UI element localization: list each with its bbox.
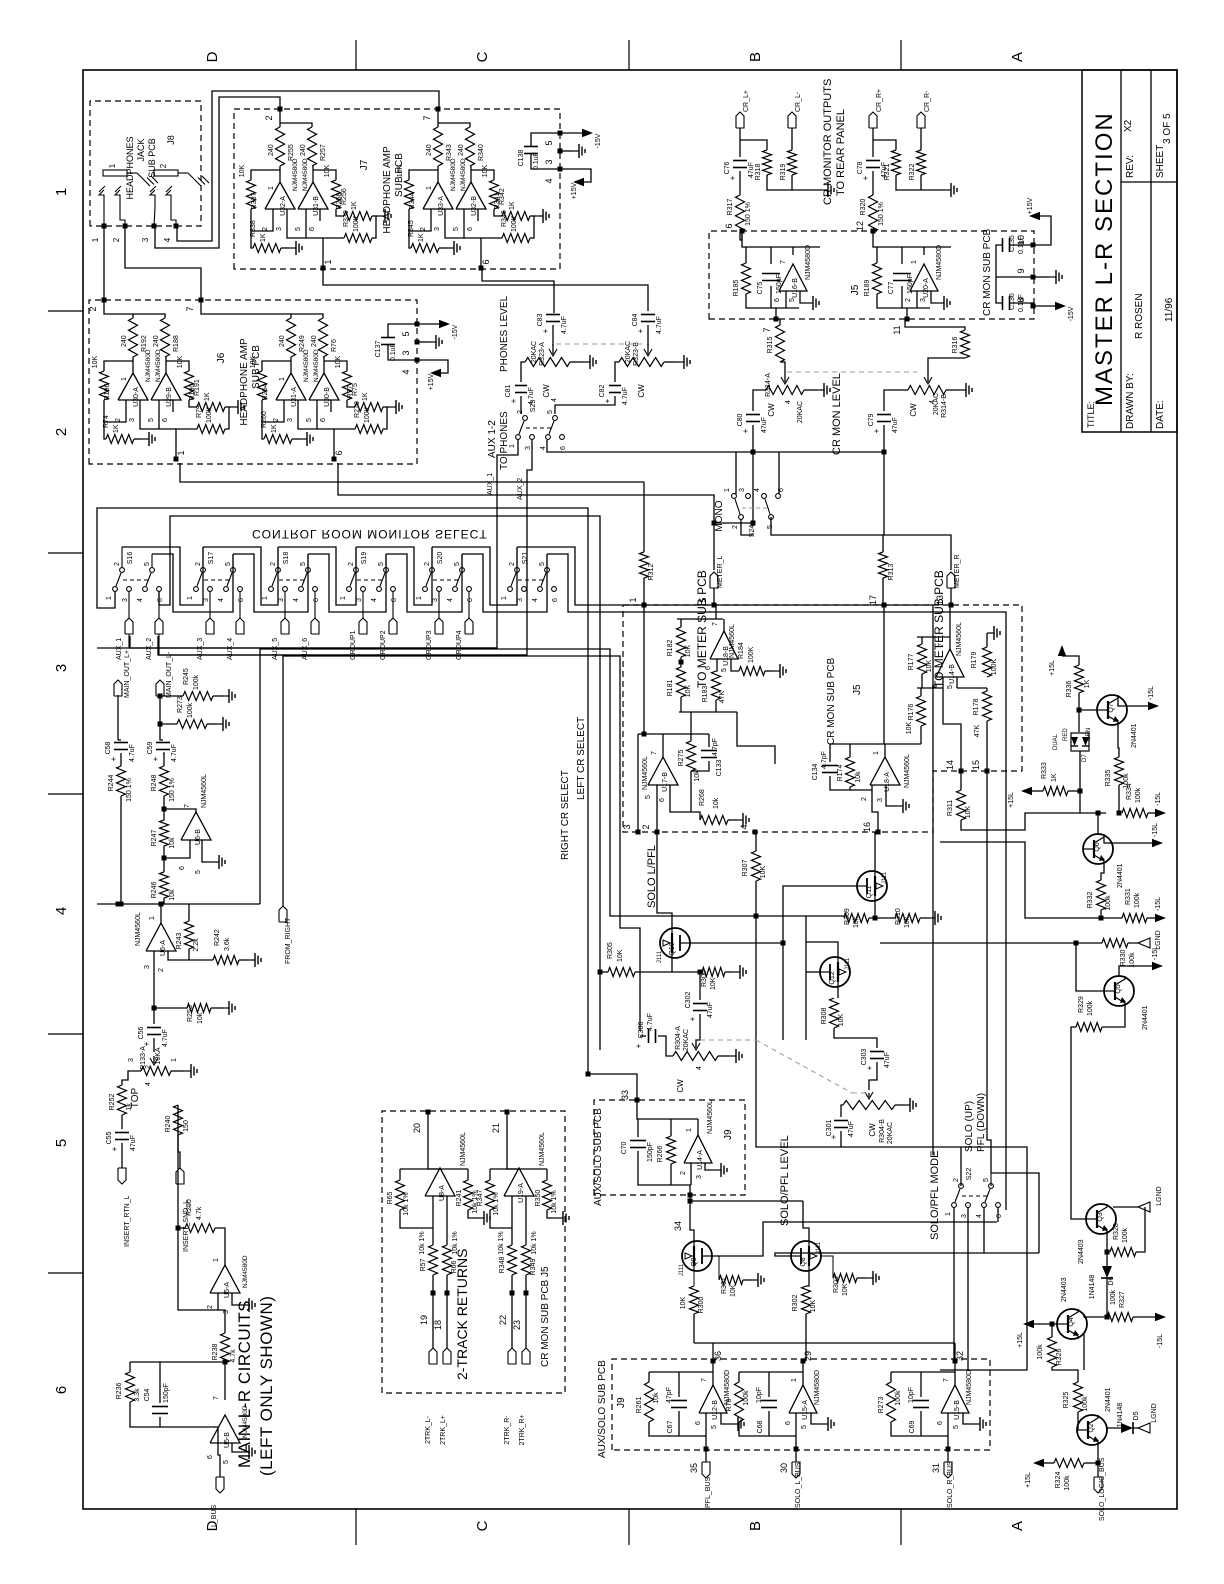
svg-text:6: 6 [334,450,344,455]
svg-text:10K: 10K [760,865,767,878]
resistor R192 240 [129,318,138,357]
ground [804,389,817,391]
svg-text:J111: J111 [816,1241,822,1254]
resistor R266 [670,1119,672,1136]
svg-text:1K: 1K [351,201,358,210]
svg-text:2: 2 [270,562,277,566]
ground [963,1413,973,1424]
svg-text:2TRK_L+: 2TRK_L+ [440,1415,447,1445]
wire [409,231,411,248]
svg-text:J111: J111 [657,950,663,963]
svg-text:6: 6 [238,598,245,602]
wire gate Q11 [783,886,857,1040]
svg-text:U8-A: U8-A [439,1185,446,1201]
svg-text:3: 3 [517,598,524,602]
power +15V [417,360,448,373]
CR MON SUB PCB J5 center box [623,605,1022,832]
svg-text:D5: D5 [1133,1411,1140,1420]
ground [765,670,773,672]
svg-text:100K: 100K [991,659,998,676]
resistor R346 100K [502,234,530,243]
op-amp U16-B [779,264,807,291]
op-amp U18-B NJM4560L [710,631,738,659]
svg-text:1: 1 [108,163,117,168]
svg-text:R305: R305 [607,942,614,959]
svg-text:R252: R252 [109,1094,116,1111]
svg-text:S17: S17 [208,552,215,565]
rail [97,903,260,905]
connector INSERT_RTN_L [121,1143,123,1168]
svg-text:C69: C69 [909,1420,916,1433]
svg-text:3: 3 [877,798,884,802]
ground [721,1413,731,1424]
svg-text:R323-B: R323-B [633,342,640,366]
junction pin 14 [959,769,964,774]
connector CR_L+ [736,112,744,128]
svg-text:1K: 1K [113,424,120,433]
svg-text:4.7uF: 4.7uF [647,1013,654,1031]
svg-text:S16: S16 [127,552,134,565]
svg-text:R184: R184 [738,642,745,659]
svg-text:PFL (DOWN): PFL (DOWN) [976,1093,987,1152]
svg-text:NJM4580D: NJM4580D [313,349,320,382]
svg-text:4: 4 [371,598,378,602]
svg-text:R255: R255 [288,144,295,161]
svg-text:1K: 1K [362,392,369,401]
svg-text:R189: R189 [864,280,871,297]
resistor R257 240 [308,127,317,166]
svg-text:30: 30 [779,1463,789,1473]
svg-text:6: 6 [53,1386,70,1394]
svg-text:3: 3 [696,1175,703,1179]
wire bus B [159,516,600,1050]
power -15L [1119,966,1152,976]
svg-text:S20: S20 [437,552,444,565]
svg-text:CW: CW [676,1079,685,1093]
wire [1052,1367,1078,1382]
wire [996,245,1002,303]
svg-text:+: + [151,756,160,761]
svg-text:C303: C303 [861,1049,868,1066]
svg-text:33: 33 [620,1090,630,1100]
svg-text:CR MON SUB PCB: CR MON SUB PCB [826,657,837,745]
svg-text:R320: R320 [860,199,867,216]
svg-text:1: 1 [873,751,880,755]
svg-text:HEADPHONE AMP: HEADPHONE AMP [239,338,250,426]
wire inv to pin 14 [943,688,961,771]
svg-text:-15V: -15V [452,324,459,339]
svg-text:+15V: +15V [571,182,578,199]
wire inputs [656,785,657,832]
svg-text:R334: R334 [1126,783,1133,800]
resistor R174 10k [849,744,851,757]
svg-text:150pF: 150pF [163,1383,170,1403]
wire [117,695,119,740]
svg-text:2TRK_R+: 2TRK_R+ [519,1415,526,1446]
power -15L Q7 [1118,695,1148,706]
connector AUX_5 [281,618,289,634]
svg-text:5: 5 [454,562,461,566]
resistor R320 150 1% [869,195,878,232]
resistor R240 150 [178,1135,180,1168]
wire [777,319,780,325]
wire [884,390,908,411]
junction node 2 [102,298,107,303]
svg-text:10k 1%: 10k 1% [531,1231,538,1254]
capacitor C303 47uF [834,1028,877,1048]
capacitor C76 47uF [733,167,747,169]
svg-text:U15-B: U15-B [954,1400,961,1420]
svg-text:R333: R333 [1041,762,1048,779]
svg-text:R311: R311 [947,800,954,816]
resistor R305 10K [608,968,635,977]
wire Q9 gate [712,1222,997,1256]
wire [917,687,943,689]
svg-text:100k: 100k [1105,895,1112,911]
resistor R78 100k [738,1372,740,1382]
svg-text:R66: R66 [451,1260,458,1273]
svg-text:R335: R335 [1105,770,1112,787]
ground [281,247,289,249]
svg-text:U18-A: U18-A [884,772,891,792]
svg-text:R342: R342 [499,188,506,205]
op-amp U19-A NJM4560L [504,1168,534,1196]
power -15V [560,132,582,134]
LGND open arrow [1133,1427,1150,1429]
svg-text:NJM4560L: NJM4560L [201,774,208,808]
svg-text:R331: R331 [1125,888,1132,905]
svg-text:9: 9 [1016,268,1026,273]
svg-text:3: 3 [432,598,439,602]
svg-text:J9: J9 [616,1397,627,1408]
svg-text:C77: C77 [888,281,895,294]
ground [211,1007,222,1009]
wire [740,140,767,150]
resistor R76 240 [319,318,328,357]
chassis ground [137,173,143,179]
svg-text:2: 2 [158,968,165,972]
wire pole chain [202,547,204,567]
svg-text:+15L: +15L [1049,660,1056,676]
resistor R342 1K [502,212,530,221]
svg-text:Q10: Q10 [669,942,676,955]
wire [432,1196,434,1245]
connector SOLO_L_BUS [795,1449,797,1462]
svg-text:C80: C80 [737,413,744,426]
svg-text:1: 1 [279,377,286,381]
wire [177,1105,179,1228]
svg-text:MONO: MONO [714,500,725,531]
resistor R315 [776,325,785,362]
wire pole chain [516,547,518,567]
svg-text:R236: R236 [116,1383,123,1400]
wire [437,166,439,182]
headphone jack 1 [103,170,127,176]
ground [213,695,222,697]
svg-text:2: 2 [348,562,355,566]
wire [873,231,951,247]
wire emitter Q5 [1102,1003,1125,1027]
ground [547,1210,556,1218]
svg-text:100K: 100K [364,406,371,423]
svg-text:100k: 100k [1135,787,1142,803]
svg-text:SHEET: SHEET [1155,145,1166,178]
junction pin 3 [415,340,420,345]
svg-text:5: 5 [539,562,546,566]
pin 3 [444,209,446,221]
connector wire CR_L- [791,128,793,150]
svg-text:R188: R188 [173,335,180,352]
wire [159,695,161,724]
svg-text:R256: R256 [341,188,348,205]
svg-text:47uF: 47uF [884,1052,891,1068]
svg-text:R182: R182 [667,640,674,657]
svg-text:NJM4580D: NJM4580D [302,158,309,191]
wire [657,832,672,928]
op-amp U6-B NJM4560L [181,812,211,840]
resistor R176 10K [920,688,922,696]
wire LGND rail [880,942,1102,944]
svg-text:C78: C78 [857,161,864,174]
connector GROUP4 [465,618,473,634]
connector wire CR_R- [920,128,922,150]
wire [104,400,126,422]
svg-text:U5-B: U5-B [224,1432,231,1448]
svg-text:6: 6 [774,298,781,302]
connector 2TRK_R+ [522,1348,530,1364]
resistor R316 [961,330,970,358]
svg-text:U30-A: U30-A [133,387,140,407]
wire [279,109,281,127]
svg-text:47uF: 47uF [892,417,899,433]
svg-text:6: 6 [659,798,666,802]
svg-text:2: 2 [88,306,98,311]
svg-text:+15V: +15V [428,373,435,390]
pin 3 [286,209,288,221]
svg-text:15: 15 [971,760,981,770]
svg-text:6: 6 [724,223,734,228]
svg-text:FROM_RIGHT: FROM_RIGHT [285,917,292,964]
svg-text:3: 3 [287,418,294,422]
resistor R347 10k 1% [489,1169,491,1180]
JFET Q9 J111 [682,1241,712,1271]
junction node 1 [321,266,326,271]
svg-text:240: 240 [426,144,433,156]
svg-text:R242: R242 [214,929,221,946]
gang dashed line R323 [556,343,645,345]
svg-text:U31-B: U31-B [313,196,320,216]
resistor R337 10K feedback A [247,180,256,209]
connector GROUP1 [359,618,367,634]
resistor R308 10K [837,987,839,998]
svg-text:R329: R329 [1078,996,1085,1013]
svg-text:8: 8 [1016,297,1026,302]
svg-text:23: 23 [512,1320,522,1330]
svg-text:NJM4580D: NJM4580D [242,1405,249,1438]
resistor R191 1K [197,403,225,412]
svg-text:CR MON SUB PCB J5: CR MON SUB PCB J5 [540,1266,551,1367]
ground [664,361,677,363]
svg-text:C75: C75 [757,281,764,294]
resistor R255 240 [276,127,285,166]
resistor R77 10K feedback B [343,371,352,400]
ground [570,361,583,363]
svg-text:R318: R318 [755,164,762,181]
pin 5 [305,209,307,221]
op-amp U30-B [309,373,339,400]
zone tick [900,40,902,70]
svg-text:U6-B: U6-B [195,829,202,845]
resistor R275 10k [690,712,692,741]
svg-text:1: 1 [791,1378,798,1382]
svg-text:U6-A: U6-A [160,940,167,956]
wire [905,319,965,330]
pin 2 [430,209,432,221]
wire [122,1071,141,1085]
ground [705,1163,714,1170]
capacitor C301 47uF [841,1105,843,1117]
svg-text:47K: 47K [719,690,726,703]
ground [232,1443,242,1452]
wire [262,422,264,439]
svg-text:MASTER L-R SECTION: MASTER L-R SECTION [1091,111,1118,406]
ground [857,1277,866,1279]
svg-text:R317: R317 [727,199,734,216]
svg-text:B: B [747,1521,764,1531]
svg-text:100k: 100k [1037,1344,1044,1360]
svg-text:METER_R: METER_R [954,555,961,588]
svg-text:C138: C138 [518,150,525,167]
svg-text:2N4401: 2N4401 [1131,723,1138,748]
svg-text:(LEFT ONLY SHOWN): (LEFT ONLY SHOWN) [257,1296,276,1476]
svg-text:Q4: Q4 [1068,1317,1075,1326]
junction 35 [705,1436,707,1449]
resistor R196 10K feedback A [100,371,109,400]
capacitor C54 150pF [159,1362,161,1403]
resistor R247 10k [160,820,169,846]
resistor R74 1K [106,435,134,444]
svg-text:1K: 1K [1084,679,1091,688]
svg-text:TO REAR PANEL: TO REAR PANEL [835,109,847,196]
ground [134,438,142,440]
ground [292,438,300,440]
resistor R183 47K [716,659,717,671]
LGND open arrow [1138,938,1150,948]
wire pole chain [277,547,279,567]
svg-text:6: 6 [932,684,939,688]
svg-text:3: 3 [53,664,70,672]
svg-text:4.7uF: 4.7uF [656,316,663,334]
svg-text:R249: R249 [299,335,306,352]
pot R133-A 10KA [153,1038,155,1052]
svg-text:NJM4580D: NJM4580D [242,1255,249,1288]
svg-text:2.2k: 2.2k [193,938,200,952]
ground rail [767,175,821,190]
wire AUX_1 tap [130,440,518,648]
svg-text:240: 240 [300,144,307,156]
wire [1079,751,1081,791]
svg-text:+: + [728,175,737,180]
pin 2 [283,400,285,412]
svg-text:7: 7 [938,643,945,647]
svg-text:CW: CW [637,384,646,398]
wire [507,1112,519,1169]
svg-text:10K: 10K [177,355,184,368]
svg-text:240: 240 [311,335,318,347]
transistor Q4 2N4403 [1057,1309,1087,1339]
svg-text:CW: CW [767,403,776,417]
wire [262,400,284,422]
svg-text:150 1%: 150 1% [169,778,176,802]
svg-text:+: + [634,1043,643,1048]
wire [130,1402,218,1443]
svg-text:R328: R328 [1113,1223,1120,1240]
svg-text:1: 1 [724,488,731,492]
AUX/SOLO SUB PCB J9 upper box [594,1100,745,1195]
wire [615,362,619,382]
svg-text:6: 6 [207,1455,214,1459]
svg-text:1: 1 [945,1212,952,1216]
svg-text:1: 1 [323,259,333,264]
ground rail [896,175,944,190]
capacitor C81 4.7uF [515,392,527,394]
svg-text:7: 7 [213,1396,220,1400]
svg-text:+: + [688,1016,697,1021]
wire [511,1275,513,1348]
svg-text:R273: R273 [177,696,184,713]
wire [940,842,1122,918]
svg-text:10k 1%: 10k 1% [403,1192,410,1215]
capacitor C84 4.7uF [641,321,655,323]
op-amp U20-A [910,264,938,291]
svg-text:AUX_1: AUX_1 [116,638,123,660]
wire [693,1314,695,1343]
svg-text:C56: C56 [138,1026,145,1039]
power -15V [417,323,439,325]
svg-text:1: 1 [171,1058,178,1062]
connector AUX_1 [125,618,133,634]
svg-text:7: 7 [422,115,432,120]
svg-text:R243: R243 [176,933,183,950]
op-amp U31-B [298,182,328,209]
svg-text:R241: R241 [456,1190,463,1207]
switch S17 [201,568,206,573]
svg-text:1: 1 [187,596,194,600]
svg-text:3: 3 [144,965,151,969]
wire [735,452,737,494]
resistor R75 1K [355,403,383,412]
capacitor C67 47pF [678,1372,680,1397]
zone tick [48,1272,83,1274]
svg-text:1: 1 [176,450,186,455]
resistor R341 10K feedback B [490,180,499,209]
connector INSERT_SND_L [176,1168,184,1184]
svg-text:4: 4 [163,237,172,242]
svg-text:AUX_2: AUX_2 [517,478,524,500]
svg-text:R178: R178 [973,699,980,716]
svg-text:10K: 10K [838,1013,845,1026]
ground [417,341,429,343]
svg-text:R76: R76 [331,339,338,352]
wire [163,796,165,820]
svg-text:100k: 100k [1122,1227,1129,1243]
svg-text:3.3k: 3.3k [134,1388,141,1402]
svg-text:100k: 100k [193,674,200,690]
svg-text:+15V: +15V [1027,197,1034,214]
wire [103,207,105,226]
svg-text:31: 31 [931,1463,941,1473]
connector CR_R+ [869,112,877,128]
